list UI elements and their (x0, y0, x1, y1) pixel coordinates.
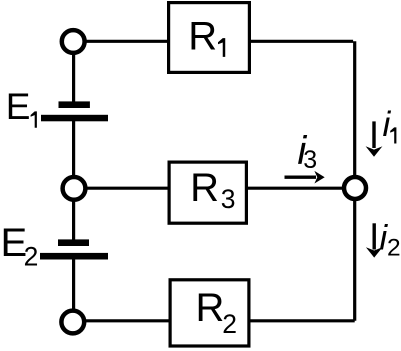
svg-text:2: 2 (24, 241, 39, 271)
svg-text:2: 2 (222, 309, 237, 339)
svg-text:R: R (190, 166, 219, 210)
svg-text:E: E (6, 86, 31, 127)
svg-text:3: 3 (221, 184, 236, 214)
svg-text:2: 2 (387, 234, 401, 261)
svg-text:R: R (188, 15, 217, 59)
svg-text:R: R (196, 286, 225, 330)
svg-text:i: i (383, 105, 392, 144)
svg-text:3: 3 (303, 146, 317, 174)
